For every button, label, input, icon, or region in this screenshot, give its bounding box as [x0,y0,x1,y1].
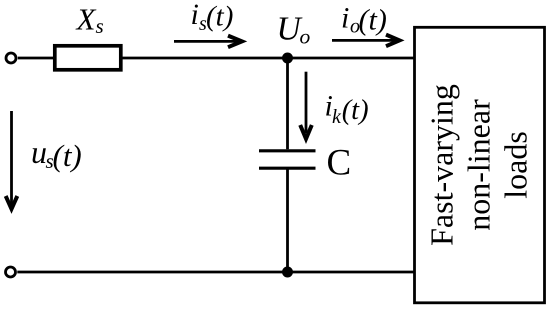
svg-text:o: o [300,25,311,49]
wire capacitor down to bottom wire [286,168,289,272]
loads box [415,27,545,303]
resistor Xs [55,46,121,70]
terminal bottom-left [6,267,16,277]
terminal top-left [6,53,16,63]
svg-text:k: k [332,106,342,128]
capacitor C [259,151,316,168]
svg-text:non-linear: non-linear [461,99,497,231]
voltage arrow us(t) [6,111,18,209]
wire node down to capacitor [286,58,289,149]
wire resistor to node [123,57,289,60]
svg-text:Fast-varying: Fast-varying [424,84,460,246]
svg-text:s: s [96,14,104,38]
svg-text:i: i [191,0,199,31]
svg-text:X: X [75,2,97,37]
current arrow ik(t) [300,72,312,139]
node top junction [282,53,293,64]
svg-text:(t): (t) [342,95,369,126]
current arrow io(t) [332,35,400,47]
svg-text:loads: loads [498,131,534,199]
svg-text:(t): (t) [206,1,233,33]
svg-text:(t): (t) [359,3,387,36]
node bottom junction [282,267,293,278]
wire terminal to resistor [18,57,54,60]
loads box text: Fast-varying non-linear loads [424,84,534,246]
svg-text:(t): (t) [53,138,82,173]
svg-text:i: i [341,2,349,35]
bottom wire [17,271,415,274]
svg-text:C: C [327,143,352,184]
current arrow is(t) [174,36,242,48]
wire node to loads box [288,57,416,60]
